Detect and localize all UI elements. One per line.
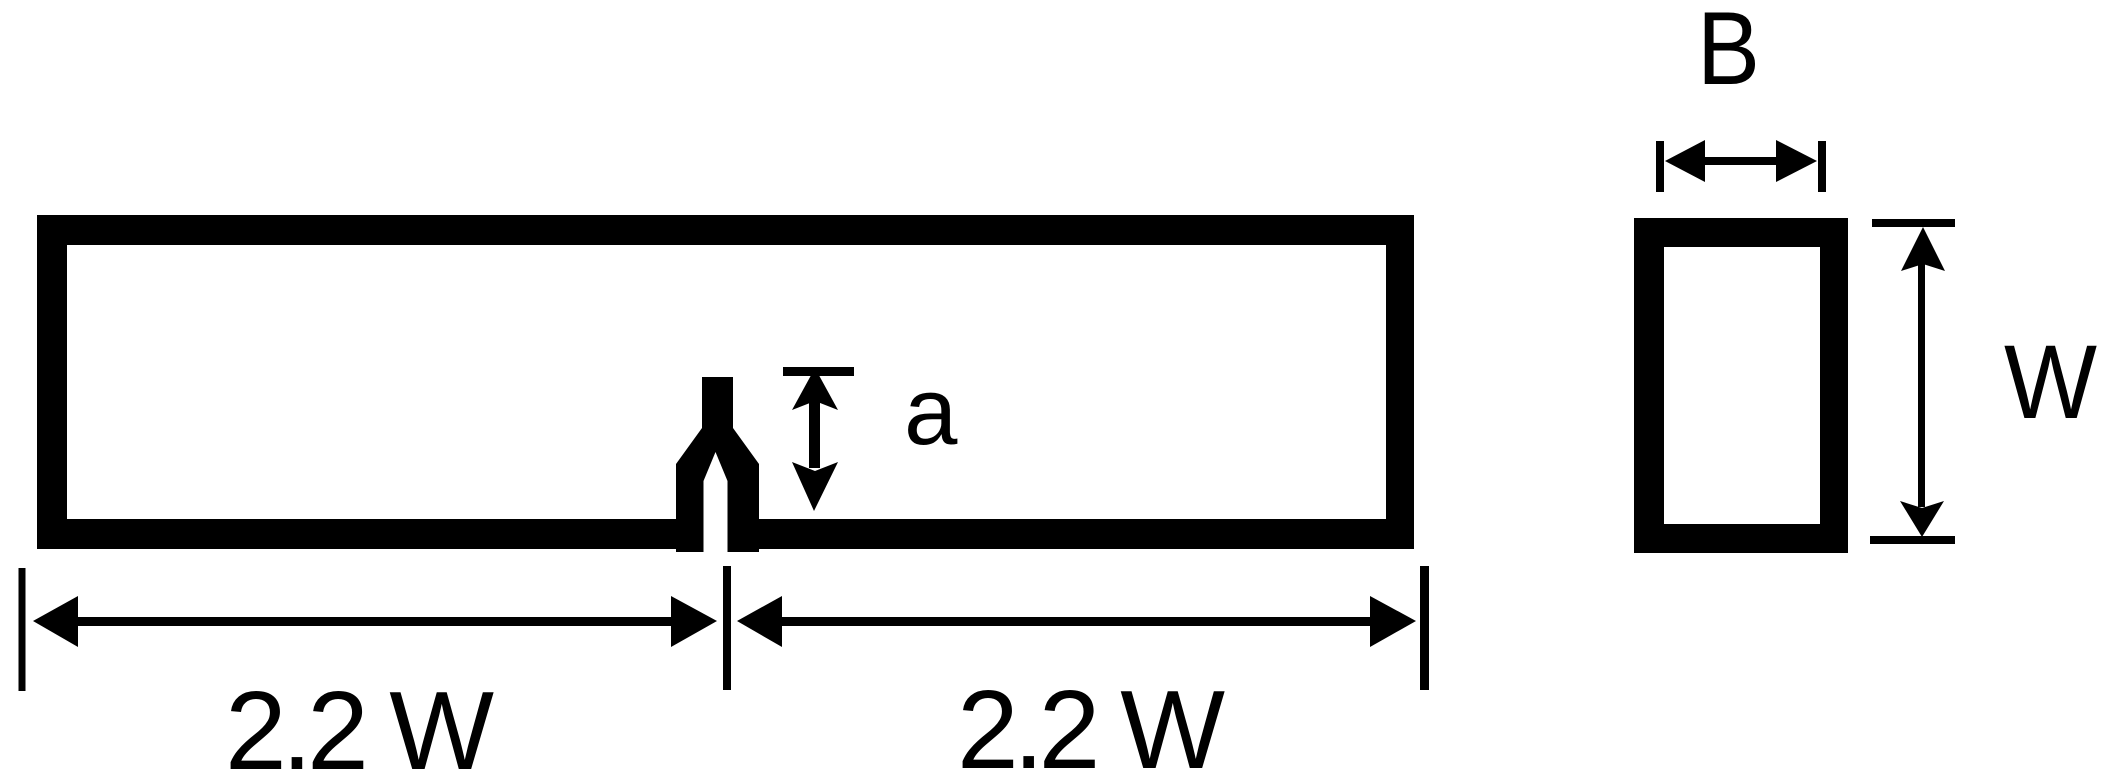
extension tick left (below specimen) [19, 568, 26, 691]
crack slot (white opening through bottom edge) [704, 452, 728, 562]
extension tick B right [1818, 141, 1826, 192]
specimen outline (side view bar) [37, 215, 1414, 549]
extension line at crack tip (for dimension a) [783, 367, 854, 376]
svg-text:2.2 W: 2.2 W [225, 669, 494, 781]
dimension arrow a (vertical double arrow) [792, 368, 838, 511]
dimension arrow W (vertical double arrow) [1900, 227, 1945, 537]
notch (machined V-notch with crack) [676, 377, 759, 552]
svg-text:2.2 W: 2.2 W [957, 668, 1225, 781]
cross-section outline (B x W rectangle) [1634, 218, 1848, 553]
extension tick center (below notch) [723, 566, 731, 690]
svg-text:a: a [904, 358, 958, 465]
dimension arrow 2.2 W left (double-headed) [33, 596, 717, 647]
extension line W bottom [1870, 536, 1955, 544]
extension tick right [1420, 566, 1429, 690]
dimension arrow 2.2 W right (double-headed) [737, 596, 1416, 647]
svg-text:W: W [2004, 324, 2097, 441]
dimension arrow B (horizontal double arrow) [1665, 140, 1817, 182]
svg-text:B: B [1697, 0, 1760, 107]
extension tick B left [1656, 141, 1664, 192]
extension line W top [1872, 219, 1955, 227]
